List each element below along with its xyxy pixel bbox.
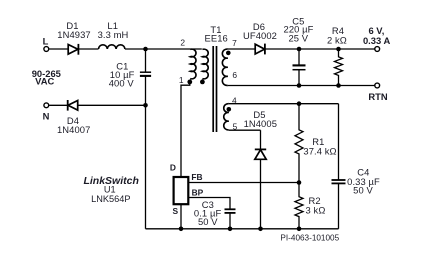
node S on rail — [179, 227, 184, 232]
wire C4 top lead — [338, 104, 340, 180]
primary winding column B — [202, 49, 208, 79]
wire L1 to C1 node — [125, 48, 146, 50]
node R4 bottom — [336, 83, 341, 88]
capacitor C3 — [225, 209, 236, 213]
polarity dot secondary (pin 7) — [226, 51, 231, 56]
polarity dot primary A (pin 1) — [187, 80, 192, 85]
svg-text:2: 2 — [180, 38, 185, 48]
core line left — [212, 46, 214, 132]
label 90-265 VAC — [32, 68, 61, 87]
svg-text:2 kΩ: 2 kΩ — [327, 34, 347, 45]
diode D4 — [68, 100, 78, 111]
svg-text:D: D — [170, 162, 176, 172]
wire BP to C3 — [188, 198, 230, 210]
bias winding 4-5 — [224, 104, 229, 130]
wire pin6 to RTN terminal — [228, 85, 375, 87]
terminal N — [44, 103, 49, 108]
svg-text:400 V: 400 V — [109, 78, 135, 89]
resistor R2 — [295, 183, 303, 229]
diode D1 — [68, 44, 78, 55]
terminal L — [44, 47, 49, 52]
svg-text:1N4007: 1N4007 — [57, 124, 90, 135]
wire pin5 — [229, 129, 261, 131]
node D5 on rail — [258, 227, 263, 232]
svg-text:RTN: RTN — [368, 91, 387, 102]
wire C5 bottom lead — [298, 70, 300, 86]
wire D4 to C1 line — [78, 104, 146, 106]
svg-text:7: 7 — [232, 38, 237, 48]
wire C4 bottom lead — [338, 183, 340, 228]
node R2 on rail — [297, 227, 302, 232]
svg-text:LNK564P: LNK564P — [91, 194, 130, 204]
wire L to D1 — [49, 48, 68, 50]
capacitor C1 — [140, 72, 151, 76]
svg-text:6: 6 — [232, 70, 237, 80]
diode D6 — [255, 44, 265, 55]
svg-text:0.33 A: 0.33 A — [363, 35, 391, 46]
capacitor C4 — [332, 180, 346, 183]
node C1/D4 junction — [143, 103, 148, 108]
wire D1 to L1 — [78, 48, 98, 50]
svg-text:PI-4063-101005: PI-4063-101005 — [280, 234, 339, 243]
svg-text:BP: BP — [192, 188, 204, 198]
wire C3 bottom lead — [229, 213, 231, 229]
svg-text:50 V: 50 V — [353, 184, 373, 195]
node FB junction — [297, 180, 302, 185]
wire C1 line down to bottom rail — [145, 105, 147, 229]
svg-text:FB: FB — [191, 172, 202, 182]
node C5 bottom — [297, 83, 302, 88]
svg-text:EE16: EE16 — [205, 32, 228, 43]
wire N to D4 — [49, 104, 68, 106]
wire C5 top lead — [298, 49, 300, 65]
polarity dot bias (pin 4) — [227, 107, 232, 112]
terminal 6V output — [375, 47, 380, 52]
svg-text:1N4005: 1N4005 — [244, 118, 277, 129]
wire D5 anode to bottom rail — [260, 159, 262, 229]
svg-text:1N4937: 1N4937 — [57, 29, 90, 40]
primary winding column A — [190, 49, 196, 79]
svg-text:50 V: 50 V — [198, 216, 218, 227]
node R1 top — [297, 101, 302, 106]
core line right — [216, 46, 218, 132]
capacitor C5 — [293, 65, 306, 69]
wire S pin to bottom rail — [180, 204, 182, 229]
svg-text:L: L — [43, 35, 49, 46]
svg-text:UF4002: UF4002 — [243, 30, 277, 41]
wire pin1 to drain — [181, 82, 190, 177]
node R4 top — [336, 47, 341, 52]
wire pin4 to C4 line — [229, 103, 339, 105]
node C3 on rail — [228, 227, 233, 232]
secondary winding 7-6 — [222, 49, 227, 85]
resistor R4 — [335, 49, 343, 86]
svg-text:VAC: VAC — [35, 76, 54, 87]
resistor R1 — [295, 104, 303, 183]
svg-text:N: N — [43, 111, 50, 122]
terminal RTN — [375, 83, 380, 88]
svg-text:25 V: 25 V — [288, 33, 308, 44]
inductor L1 — [99, 45, 125, 49]
wire FB to divider — [188, 182, 299, 184]
node C5 top — [297, 47, 302, 52]
diode D5 — [255, 149, 266, 159]
svg-text:3.3 mH: 3.3 mH — [98, 29, 129, 40]
wire pin5 to D5 cathode — [260, 130, 262, 149]
wire pin7 to D6 — [228, 48, 255, 50]
op IC U1 LNK564P body — [174, 177, 189, 204]
bottom source rail — [146, 228, 339, 230]
svg-text:1: 1 — [179, 75, 184, 85]
wire C1 node to T1 pin2 — [146, 48, 202, 50]
svg-text:3 kΩ: 3 kΩ — [306, 205, 326, 216]
svg-text:37.4 kΩ: 37.4 kΩ — [303, 146, 336, 157]
svg-text:S: S — [173, 206, 179, 216]
wire C1 top lead — [145, 49, 147, 72]
wire D6 to output terminal — [265, 48, 375, 50]
node C1 top junction — [143, 47, 148, 52]
wire C1 bottom to D4 junction — [145, 76, 147, 105]
polarity dot primary B — [200, 80, 205, 85]
